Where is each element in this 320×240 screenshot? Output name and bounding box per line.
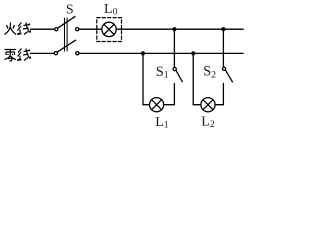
svg-text:L1: L1 bbox=[155, 115, 169, 131]
svg-text:L2: L2 bbox=[201, 114, 215, 130]
svg-text:L0: L0 bbox=[104, 2, 118, 18]
label 火线 (live wire) bbox=[5, 23, 31, 35]
lamp L0 dashed enclosure bbox=[97, 18, 122, 42]
switch S terminal bottom-right bbox=[76, 52, 79, 55]
node: live junction for S1 branch bbox=[172, 27, 176, 31]
svg-text:S: S bbox=[66, 2, 74, 17]
label 零线 (neutral wire) bbox=[5, 49, 31, 61]
wire: live from 火线 to switch S bbox=[31, 28, 55, 30]
switch S2 blade bbox=[226, 71, 233, 82]
wire: L1 branch left drop bbox=[143, 53, 149, 104]
wire: neutral from 零线 to switch S bbox=[31, 52, 55, 54]
wire: S2 branch lower drop to lamp L2 bbox=[215, 83, 223, 104]
lamp L1 bbox=[150, 98, 164, 112]
svg-text:S1: S1 bbox=[156, 64, 169, 81]
switch S mechanical link bbox=[64, 18, 66, 51]
wire: live bus from L0 to right edge bbox=[116, 28, 243, 30]
wire: S2 branch upper drop bbox=[222, 29, 224, 67]
node: live junction for S2 branch bbox=[221, 27, 225, 31]
switch S1 blade bbox=[176, 71, 182, 82]
switch S1 terminal bbox=[173, 67, 176, 70]
switch S2 terminal bbox=[223, 67, 226, 70]
switch S blade bottom bbox=[57, 40, 75, 52]
switch S terminal top-right bbox=[76, 28, 79, 31]
switch S blade top bbox=[58, 17, 75, 28]
switch S terminal bottom-left bbox=[54, 52, 57, 55]
wire: S1 branch lower drop to lamp L1 bbox=[164, 84, 175, 105]
node: neutral junction for L1 branch bbox=[141, 51, 145, 55]
lamp L0 bbox=[102, 22, 116, 36]
node: neutral junction for L2 branch bbox=[191, 51, 195, 55]
lamp L2 bbox=[201, 98, 215, 112]
svg-text:S2: S2 bbox=[203, 64, 216, 81]
wire: neutral bus from S to right edge bbox=[79, 52, 243, 54]
wire: L2 branch left drop bbox=[193, 53, 201, 104]
wire: S1 branch upper drop bbox=[173, 29, 175, 67]
switch S terminal top-left bbox=[55, 28, 58, 31]
wire: live from S to lamp L0 bbox=[79, 28, 102, 30]
